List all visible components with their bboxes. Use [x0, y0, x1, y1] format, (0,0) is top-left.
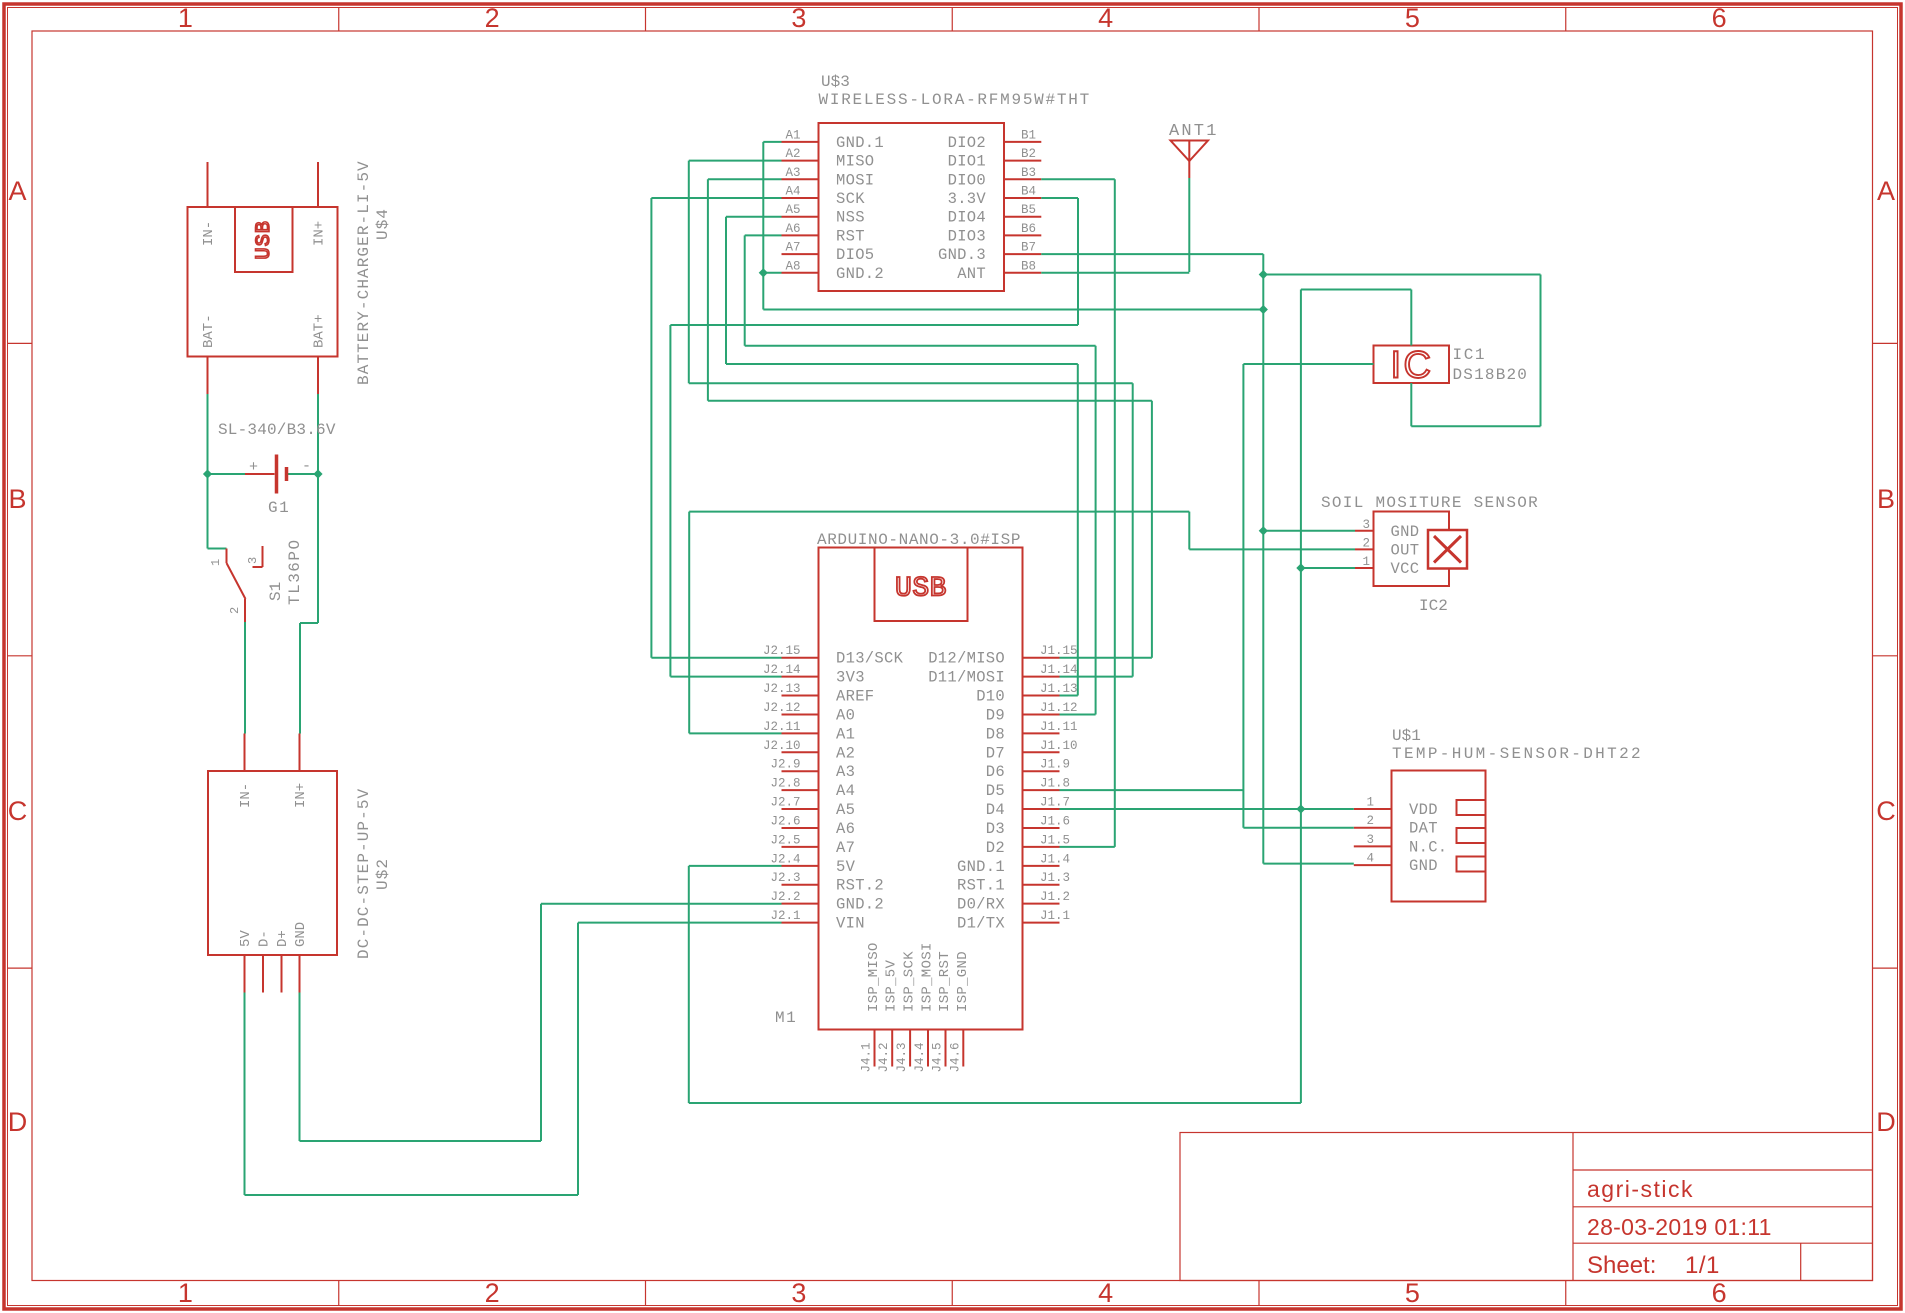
Arduino pin stub J2.3 — [782, 884, 819, 886]
column tick marks top — [338, 8, 340, 32]
svg-text:2: 2 — [485, 3, 500, 33]
LoRa pin stub B2 — [1004, 160, 1041, 162]
svg-text:3: 3 — [791, 3, 806, 33]
svg-text:J1.8: J1.8 — [1040, 777, 1070, 791]
svg-text:J1.10: J1.10 — [1040, 739, 1078, 753]
svg-text:ISP_MISO: ISP_MISO — [866, 942, 882, 1012]
svg-text:5V: 5V — [836, 858, 856, 876]
svg-text:C: C — [1876, 796, 1896, 826]
svg-text:D: D — [8, 1107, 28, 1137]
svg-text:NSS: NSS — [836, 209, 865, 227]
Arduino pin stub J1.5 — [1023, 846, 1060, 848]
Arduino pin stub J1.4 — [1023, 865, 1060, 867]
svg-text:MISO: MISO — [836, 153, 874, 171]
svg-text:DIO1: DIO1 — [948, 153, 986, 171]
wire battery minus to DC-DC IN+ — [317, 474, 319, 623]
title block outline — [1180, 1133, 1873, 1281]
battery charger U$4 box — [188, 207, 338, 357]
svg-text:J2.15: J2.15 — [763, 644, 801, 658]
svg-text:DIO3: DIO3 — [948, 227, 986, 245]
battery charger pin IN+ stub top — [317, 162, 319, 207]
LoRa pin stub B7 — [1004, 253, 1041, 255]
svg-text:J2.10: J2.10 — [763, 739, 801, 753]
DHT22 pin stub 4 — [1354, 864, 1392, 866]
svg-text:M1: M1 — [775, 1009, 797, 1027]
svg-text:MOSI: MOSI — [836, 171, 874, 189]
node 5V junction DHT VDD — [1296, 804, 1305, 813]
title block row lines — [1573, 1169, 1873, 1171]
svg-text:USB: USB — [253, 220, 276, 260]
svg-text:G1: G1 — [268, 499, 290, 517]
svg-text:6: 6 — [1712, 3, 1727, 33]
svg-text:TL36PO: TL36PO — [286, 538, 304, 605]
svg-text:D-: D- — [257, 930, 273, 947]
wire GND LoRa GND.1 A1 — [763, 141, 781, 143]
svg-text:D2: D2 — [986, 839, 1005, 857]
svg-text:RST: RST — [836, 227, 865, 245]
Arduino pin stub J2.6 — [782, 827, 819, 829]
wire data net vertical to DAT — [1242, 364, 1244, 828]
wire GND vertical from LoRa GND.3 B7 — [1041, 253, 1263, 255]
svg-text:A2: A2 — [836, 744, 855, 762]
temperature sensor IC1 box — [1374, 346, 1450, 384]
svg-text:A5: A5 — [785, 203, 800, 217]
svg-text:2: 2 — [1362, 536, 1370, 550]
svg-text:A4: A4 — [785, 185, 800, 199]
wire 5V net vertical and to Arduino 5V pin — [1300, 290, 1302, 1104]
svg-text:J1.2: J1.2 — [1040, 890, 1070, 904]
title block sheet cell divider — [1800, 1243, 1802, 1280]
DC-DC pin 5V stub — [244, 955, 246, 993]
svg-text:J1.9: J1.9 — [1040, 758, 1070, 772]
svg-text:DIO2: DIO2 — [948, 134, 986, 152]
svg-text:Sheet:: Sheet: — [1587, 1252, 1656, 1279]
switch S1 pin 1 stub — [226, 549, 228, 564]
svg-text:B5: B5 — [1021, 203, 1036, 217]
svg-text:J2.11: J2.11 — [763, 720, 801, 734]
svg-text:2: 2 — [228, 607, 242, 614]
battery charger pin BAT- stub bottom — [207, 357, 209, 395]
svg-text:A: A — [8, 176, 26, 206]
Arduino pin stub J4.2 — [891, 1030, 893, 1067]
LoRa pin stub B5 — [1004, 216, 1041, 218]
svg-text:DIO0: DIO0 — [948, 171, 986, 189]
wire GND LoRa GND.2 A8 — [763, 272, 781, 274]
wire D4 to DHT VDD — [1060, 808, 1354, 810]
svg-text:A5: A5 — [836, 801, 855, 819]
svg-text:U$2: U$2 — [374, 858, 392, 890]
svg-text:J4.1: J4.1 — [860, 1042, 874, 1072]
svg-text:VIN: VIN — [836, 915, 865, 933]
svg-text:3: 3 — [1362, 518, 1370, 532]
Arduino pin stub J2.7 — [782, 808, 819, 810]
switch S1 pin 2 stub — [244, 599, 246, 622]
svg-text:IN+: IN+ — [293, 783, 309, 808]
svg-text:J2.6: J2.6 — [770, 814, 800, 828]
node battery right junction — [313, 469, 322, 478]
DC-DC pin IN+ stub — [299, 734, 301, 772]
Arduino pin stub J1.11 — [1023, 732, 1060, 734]
svg-text:J4.6: J4.6 — [948, 1042, 962, 1072]
DC-DC pin D- stub — [262, 955, 264, 993]
svg-text:1: 1 — [178, 3, 193, 33]
svg-text:J1.3: J1.3 — [1040, 871, 1070, 885]
svg-text:GND.2: GND.2 — [836, 265, 884, 283]
svg-text:D5: D5 — [986, 782, 1005, 800]
svg-text:B8: B8 — [1021, 259, 1036, 273]
Arduino pin stub J2.5 — [782, 846, 819, 848]
Arduino pin stub J2.13 — [782, 695, 819, 697]
wire SCK A4 to D13 — [651, 197, 781, 199]
svg-text:DAT: DAT — [1409, 820, 1438, 838]
svg-text:TEMP-HUM-SENSOR-DHT22: TEMP-HUM-SENSOR-DHT22 — [1392, 745, 1643, 763]
svg-text:D3: D3 — [986, 820, 1005, 838]
svg-text:agri-stick: agri-stick — [1587, 1176, 1694, 1202]
svg-text:J2.1: J2.1 — [770, 909, 800, 923]
wire D5 to data net — [1060, 789, 1244, 791]
svg-text:J4.3: J4.3 — [895, 1042, 909, 1072]
DHT22 pin stub 3 — [1354, 845, 1392, 847]
soil sensor probe box with X — [1428, 530, 1467, 569]
svg-text:DC-DC-STEP-UP-5V: DC-DC-STEP-UP-5V — [355, 788, 373, 959]
battery G1 symbol — [245, 473, 275, 475]
svg-text:J2.12: J2.12 — [763, 701, 801, 715]
svg-text:D0/RX: D0/RX — [957, 896, 1005, 914]
svg-text:5: 5 — [1405, 1278, 1420, 1308]
Arduino pin stub J1.15 — [1023, 657, 1060, 659]
svg-text:+: + — [249, 459, 258, 476]
svg-text:B3: B3 — [1021, 166, 1036, 180]
svg-text:A3: A3 — [785, 166, 800, 180]
svg-text:J1.5: J1.5 — [1040, 833, 1070, 847]
LoRa pin stub A7 — [782, 253, 819, 255]
svg-text:D1/TX: D1/TX — [957, 915, 1005, 933]
svg-text:J4.5: J4.5 — [931, 1042, 945, 1072]
Arduino pin stub J2.15 — [782, 657, 819, 659]
svg-text:A1: A1 — [785, 128, 800, 142]
soil sensor pin stub 3 — [1355, 530, 1374, 532]
wire MISO A2 to D11 — [689, 160, 782, 162]
wire soil VCC to 5V net — [1301, 567, 1355, 569]
DHT22 right pad notches — [1457, 800, 1486, 815]
svg-text:A6: A6 — [785, 222, 800, 236]
svg-text:D+: D+ — [275, 930, 291, 947]
wire DIO0 B3 to D2 — [1041, 178, 1115, 180]
svg-text:IN+: IN+ — [312, 221, 328, 246]
svg-text:GND.1: GND.1 — [836, 134, 884, 152]
svg-text:6: 6 — [1712, 1278, 1727, 1308]
Arduino pin stub J2.11 — [782, 732, 819, 734]
svg-text:B6: B6 — [1021, 222, 1036, 236]
svg-text:OUT: OUT — [1391, 541, 1420, 559]
svg-text:B: B — [8, 484, 26, 514]
svg-text:J1.12: J1.12 — [1040, 701, 1078, 715]
svg-text:J4.2: J4.2 — [877, 1042, 891, 1072]
node GND junction top — [1259, 270, 1268, 279]
svg-text:ISP_MOSI: ISP_MOSI — [920, 942, 936, 1012]
svg-text:GND: GND — [293, 922, 309, 947]
svg-text:J2.4: J2.4 — [770, 852, 800, 866]
svg-text:IC1: IC1 — [1453, 346, 1487, 364]
svg-text:U$1: U$1 — [1392, 727, 1421, 745]
Arduino pin stub J2.10 — [782, 751, 819, 753]
svg-text:N.C.: N.C. — [1409, 838, 1447, 856]
svg-text:D9: D9 — [986, 706, 1005, 724]
svg-text:S1: S1 — [267, 582, 285, 601]
svg-text:A7: A7 — [836, 839, 855, 857]
LoRa pin stub B3 — [1004, 178, 1041, 180]
svg-text:BATTERY-CHARGER-LI-5V: BATTERY-CHARGER-LI-5V — [355, 160, 373, 385]
node battery left junction — [203, 469, 212, 478]
LoRa pin stub B1 — [1004, 141, 1041, 143]
LoRa pin stub A6 — [782, 234, 819, 236]
LoRa pin stub A4 — [782, 197, 819, 199]
Arduino pin stub J4.5 — [945, 1030, 947, 1067]
Arduino pin stub J4.4 — [927, 1030, 929, 1067]
svg-text:4: 4 — [1366, 852, 1374, 866]
svg-text:4: 4 — [1098, 1278, 1113, 1308]
Arduino pin stub J1.10 — [1023, 751, 1060, 753]
svg-text:C: C — [8, 796, 28, 826]
Arduino pin stub J2.12 — [782, 713, 819, 715]
svg-text:B: B — [1877, 484, 1895, 514]
LoRa pin stub A1 — [782, 141, 819, 143]
Arduino pin stub J2.2 — [782, 903, 819, 905]
svg-text:D7: D7 — [986, 744, 1005, 762]
svg-text:3: 3 — [246, 557, 260, 564]
wire battery right — [317, 394, 319, 474]
svg-text:D12/MISO: D12/MISO — [928, 650, 1005, 668]
wire MOSI A3 to D12 — [708, 178, 782, 180]
wire soil GND to GND net — [1263, 530, 1355, 532]
svg-text:A7: A7 — [785, 241, 800, 255]
DC-DC pin IN- stub — [244, 734, 246, 772]
svg-text:3V3: 3V3 — [836, 669, 865, 687]
svg-text:BAT+: BAT+ — [312, 314, 328, 348]
svg-text:A0: A0 — [836, 706, 855, 724]
svg-text:A8: A8 — [785, 259, 800, 273]
LoRa pin stub A5 — [782, 216, 819, 218]
svg-text:WIRELESS-LORA-RFM95W#THT: WIRELESS-LORA-RFM95W#THT — [819, 91, 1091, 109]
svg-text:5: 5 — [1405, 3, 1420, 33]
svg-text:J2.8: J2.8 — [770, 777, 800, 791]
svg-text:GND: GND — [1409, 857, 1438, 875]
battery charger USB connector box — [235, 207, 293, 272]
svg-text:3: 3 — [791, 1278, 806, 1308]
Arduino pin stub J1.7 — [1023, 808, 1060, 810]
DC-DC pin GND stub — [299, 955, 301, 993]
row tick marks right — [1873, 342, 1898, 344]
svg-text:RST.1: RST.1 — [957, 877, 1005, 895]
wire switch to DC-DC IN- — [244, 622, 246, 734]
svg-text:D8: D8 — [986, 725, 1005, 743]
svg-text:5V: 5V — [238, 930, 254, 947]
svg-text:ARDUINO-NANO-3.0#ISP: ARDUINO-NANO-3.0#ISP — [817, 531, 1021, 549]
svg-text:SOIL MOSITURE SENSOR: SOIL MOSITURE SENSOR — [1321, 494, 1539, 512]
svg-text:28-03-2019 01:11: 28-03-2019 01:11 — [1587, 1214, 1772, 1240]
wire NSS A5 to D10 — [726, 216, 782, 218]
node GND junction soil — [1259, 526, 1268, 535]
Arduino pin stub J1.9 — [1023, 770, 1060, 772]
svg-text:IN-: IN- — [238, 783, 254, 808]
svg-text:-: - — [302, 458, 311, 475]
svg-text:U$4: U$4 — [374, 208, 392, 240]
svg-text:A: A — [1877, 176, 1895, 206]
Arduino pin stub J1.2 — [1023, 903, 1060, 905]
svg-text:ANT: ANT — [957, 265, 986, 283]
svg-text:2: 2 — [485, 1278, 500, 1308]
svg-text:ISP_SCK: ISP_SCK — [902, 951, 918, 1012]
Arduino pin stub J4.6 — [962, 1030, 964, 1067]
temp-hum sensor U$1 box — [1392, 771, 1486, 902]
svg-text:D: D — [1876, 1107, 1896, 1137]
Arduino pin stub J2.4 — [782, 865, 819, 867]
wire battery left — [207, 394, 209, 474]
switch S1 pin 3 stub — [262, 546, 264, 567]
svg-text:A3: A3 — [836, 763, 855, 781]
LoRa pin stub B6 — [1004, 234, 1041, 236]
Arduino pin stub J2.14 — [782, 676, 819, 678]
LoRa pin stub B8 — [1004, 272, 1041, 274]
svg-text:3.3V: 3.3V — [948, 190, 987, 208]
wire RST A6 to D9 — [745, 234, 782, 236]
svg-text:ISP_5V: ISP_5V — [884, 959, 900, 1012]
svg-text:ANT1: ANT1 — [1169, 122, 1219, 141]
Arduino pin stub J1.13 — [1023, 695, 1060, 697]
svg-text:BAT-: BAT- — [201, 314, 217, 348]
DHT22 pin stub 1 — [1354, 808, 1392, 810]
svg-text:4: 4 — [1098, 3, 1113, 33]
column tick marks bottom — [338, 1281, 340, 1306]
svg-text:2: 2 — [1366, 814, 1374, 828]
wire GND to DHT GND pin — [1263, 863, 1354, 865]
svg-text:USB: USB — [895, 574, 947, 605]
svg-text:SL-340/B3.6V: SL-340/B3.6V — [218, 421, 336, 439]
svg-text:J1.1: J1.1 — [1040, 909, 1070, 923]
Arduino pin stub J1.1 — [1023, 922, 1060, 924]
svg-text:J1.15: J1.15 — [1040, 644, 1078, 658]
svg-text:1: 1 — [178, 1278, 193, 1308]
svg-text:1: 1 — [209, 559, 223, 566]
svg-text:U$3: U$3 — [821, 73, 850, 91]
node GND junction at A8 — [759, 268, 768, 277]
svg-text:IC: IC — [1391, 345, 1434, 387]
svg-text:J4.4: J4.4 — [913, 1042, 927, 1072]
soil moisture sensor IC2 box — [1374, 512, 1450, 587]
svg-text:SCK: SCK — [836, 190, 865, 208]
svg-text:1/1: 1/1 — [1685, 1252, 1720, 1279]
svg-text:J1.6: J1.6 — [1040, 814, 1070, 828]
svg-text:ISP_GND: ISP_GND — [955, 951, 971, 1012]
svg-text:GND.1: GND.1 — [957, 858, 1005, 876]
svg-text:J2.2: J2.2 — [770, 890, 800, 904]
soil sensor pin stub 2 — [1355, 548, 1374, 550]
svg-text:A1: A1 — [836, 725, 855, 743]
Arduino pin stub J4.1 — [874, 1030, 876, 1067]
svg-text:J1.11: J1.11 — [1040, 720, 1078, 734]
svg-text:J2.3: J2.3 — [770, 871, 800, 885]
svg-text:VCC: VCC — [1391, 560, 1420, 578]
svg-text:J2.14: J2.14 — [763, 663, 801, 677]
LoRa pin stub A2 — [782, 160, 819, 162]
Arduino pin stub J2.1 — [782, 922, 819, 924]
svg-text:A2: A2 — [785, 147, 800, 161]
Arduino pin stub J1.14 — [1023, 676, 1060, 678]
battery charger pin IN- stub top — [207, 162, 209, 207]
svg-text:ISP_RST: ISP_RST — [937, 951, 953, 1012]
svg-text:AREF: AREF — [836, 688, 874, 706]
Arduino USB connector box — [875, 548, 968, 622]
svg-text:J1.7: J1.7 — [1040, 796, 1070, 810]
svg-text:1: 1 — [1366, 796, 1374, 810]
DC-DC pin D+ stub — [281, 955, 283, 993]
svg-text:GND.2: GND.2 — [836, 896, 884, 914]
svg-text:D10: D10 — [976, 688, 1005, 706]
svg-text:J2.9: J2.9 — [770, 758, 800, 772]
svg-text:D6: D6 — [986, 763, 1005, 781]
Arduino pin stub J1.12 — [1023, 713, 1060, 715]
wire IC1 VDD top pin to 5V — [1410, 290, 1412, 346]
wire DC-DC 5V to Arduino VIN — [244, 993, 246, 1196]
svg-text:J2.7: J2.7 — [770, 796, 800, 810]
DHT22 pin stub 2 — [1354, 827, 1392, 829]
wire 3V3 to LoRa 3.3V B4 — [1041, 197, 1078, 199]
svg-text:B7: B7 — [1021, 241, 1036, 255]
battery charger pin BAT+ stub bottom — [317, 357, 319, 395]
svg-text:GND.3: GND.3 — [938, 246, 986, 264]
node 5V junction soil VCC — [1296, 563, 1305, 572]
svg-text:GND: GND — [1391, 523, 1420, 541]
svg-text:D4: D4 — [986, 801, 1005, 819]
LoRa pin stub A3 — [782, 178, 819, 180]
wire battery to switch — [207, 474, 209, 549]
antenna ANT1 symbol — [1171, 141, 1209, 162]
svg-text:B4: B4 — [1021, 185, 1036, 199]
wire soil OUT to Arduino A1 — [1189, 548, 1355, 550]
svg-text:B1: B1 — [1021, 128, 1036, 142]
svg-text:D11/MOSI: D11/MOSI — [928, 669, 1005, 687]
svg-text:J1.4: J1.4 — [1040, 852, 1070, 866]
svg-text:A4: A4 — [836, 782, 855, 800]
svg-text:RST.2: RST.2 — [836, 877, 884, 895]
row tick marks left — [8, 342, 33, 344]
svg-text:J1.14: J1.14 — [1040, 663, 1078, 677]
Arduino pin stub J4.3 — [909, 1030, 911, 1067]
node GND junction right — [1259, 305, 1268, 314]
svg-text:DIO5: DIO5 — [836, 246, 874, 264]
svg-text:IN-: IN- — [201, 221, 217, 246]
svg-text:J2.5: J2.5 — [770, 833, 800, 847]
svg-text:DIO4: DIO4 — [948, 209, 986, 227]
switch S1 lever — [227, 563, 246, 599]
DC-DC converter U$2 box — [208, 771, 337, 955]
Arduino pin stub J1.6 — [1023, 827, 1060, 829]
Arduino Nano M1 box — [819, 548, 1023, 1030]
svg-text:1: 1 — [1362, 555, 1370, 569]
Arduino pin stub J1.8 — [1023, 789, 1060, 791]
svg-text:IC2: IC2 — [1419, 597, 1448, 615]
Arduino pin stub J2.9 — [782, 770, 819, 772]
Arduino pin stub J2.8 — [782, 789, 819, 791]
wire IC1 DQ to data net — [1243, 363, 1373, 365]
svg-text:B2: B2 — [1021, 147, 1036, 161]
soil sensor pin stub 1 — [1355, 567, 1374, 569]
title block vertical divider — [1572, 1133, 1574, 1281]
svg-text:J1.13: J1.13 — [1040, 682, 1078, 696]
Arduino pin stub J1.3 — [1023, 884, 1060, 886]
wire GND horizontal to right — [763, 309, 1263, 311]
svg-text:3: 3 — [1366, 833, 1374, 847]
